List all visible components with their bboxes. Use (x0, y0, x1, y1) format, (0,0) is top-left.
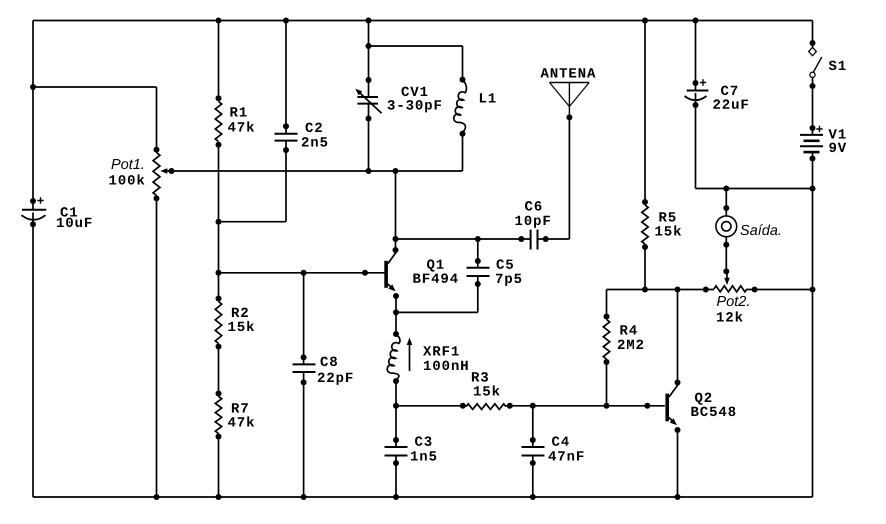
inductor L1 (454, 77, 467, 137)
node top rail at R1 (216, 18, 222, 24)
node Q1 collector branch (393, 236, 399, 242)
node R1/C2 junction (216, 219, 222, 225)
node C5 branch (475, 236, 481, 242)
capacitor C7 (electrolytic 22uF) (685, 79, 709, 108)
wire left rail upper (to C1) (32, 21, 34, 210)
wire right rail lower (812, 189, 814, 498)
value 3-30pF (388, 100, 442, 112)
wire top supply rail (33, 20, 813, 22)
value 9V (829, 143, 846, 153)
value 15k (474, 385, 500, 395)
node base bus at R1/R2 (216, 270, 222, 276)
wire R2 to R7 (218, 347, 220, 394)
label S1 (829, 61, 846, 71)
output jack Saida (716, 205, 737, 248)
label V1 (829, 129, 846, 138)
wire emitter node to R3 (396, 405, 466, 407)
node tank branch (366, 43, 372, 49)
node ground rail at R7 (216, 494, 222, 500)
resistor R5 (642, 199, 648, 250)
resistor R3 (460, 403, 513, 410)
node wiper bus at CV1 (366, 168, 372, 174)
wire top rail to R1 (218, 21, 220, 99)
node collector net at right rail (810, 287, 816, 293)
value 15k (228, 321, 254, 331)
wire C4 to ground rail (532, 456, 534, 498)
label C2 (306, 123, 322, 133)
label C6 (525, 201, 541, 211)
label R2 (232, 308, 248, 317)
transistor Q1 (BF494) (384, 247, 399, 299)
switch S1 (809, 40, 822, 89)
capacitor C6 (518, 230, 548, 250)
capacitor C1 (electrolytic 10uF) (22, 197, 47, 227)
wire down to Pot1 top (156, 87, 158, 150)
node R5 / collector net (642, 287, 648, 293)
node Q1 base terminal (362, 270, 368, 276)
wire C7 to output rail (695, 105, 697, 189)
value 15k (655, 225, 681, 235)
wire C2 to R1 node (219, 221, 287, 223)
wire output node to jack (725, 189, 727, 217)
node emitter network junction (393, 403, 399, 409)
wire C6 to antenna (horizontal) (538, 238, 570, 240)
wire Q1 base bus (219, 272, 386, 274)
value 12k (717, 311, 743, 321)
node Q2 base terminal (644, 403, 650, 409)
node output rail at battery (810, 186, 816, 192)
wire top rail to C2 (285, 21, 287, 134)
wire Q1 collector lead (395, 171, 397, 252)
label ANTENA (541, 68, 596, 77)
node ground rail at Pot1 (154, 494, 160, 500)
label C5 (497, 259, 514, 269)
wire L1 bottom lead (462, 134, 464, 171)
wire base node to C8 (303, 273, 305, 365)
wire Q2 collector net (left) (607, 289, 715, 291)
wire left rail to Pot1 (horizontal) (33, 86, 157, 88)
label C8 (321, 357, 338, 367)
node top rail at R5 (642, 18, 648, 24)
wire R4 top lead (606, 290, 608, 317)
value 10pF (515, 216, 550, 228)
value BF494 (413, 273, 457, 283)
wire XRF1 to C3 node (395, 381, 397, 447)
label C4 (552, 436, 569, 446)
wire C4 top lead (532, 406, 534, 447)
wire C5 to emitter node (396, 311, 478, 313)
node ground rail at C4 (530, 494, 536, 500)
value 47nF (549, 451, 584, 460)
label Pot2. (717, 296, 749, 306)
wire R5 bottom lead (644, 247, 646, 290)
label Q1 (427, 259, 444, 271)
wire C5 bottom lead (477, 276, 479, 312)
wire antenna lead (vertical) (568, 117, 570, 239)
wire CV1 bottom lead (368, 104, 370, 171)
label Saida. (740, 224, 780, 235)
wire Q2 emitter to ground rail (677, 430, 679, 497)
wire Q1 emitter to XRF1 (395, 296, 397, 334)
resistor R2 (215, 296, 221, 350)
wire R3 to Q2 base (506, 405, 665, 407)
battery V1 (800, 125, 823, 162)
capacitor C3 (385, 437, 408, 466)
label R4 (620, 325, 636, 334)
wire top rail to C7 (695, 21, 697, 91)
value 7p5 (496, 274, 521, 286)
value 2M2 (618, 340, 643, 349)
wire R7 to ground rail (218, 437, 220, 498)
value 100k (109, 174, 144, 184)
potentiometer Pot2 (703, 268, 758, 292)
value 22pF (318, 373, 353, 385)
node top rail at CV1 (366, 18, 372, 24)
wire output rail (C7 to battery) (696, 188, 813, 190)
wire top rail to CV1 (368, 21, 370, 98)
node ground rail at C3 (393, 494, 399, 500)
value 22uF (713, 99, 748, 109)
antenna ANTENA (550, 83, 590, 121)
value BC548 (691, 407, 735, 417)
value 100nH (424, 361, 468, 371)
wire top rail to R5 (644, 21, 646, 203)
wire C2 bottom lead (285, 141, 287, 222)
resistor R4 (603, 314, 609, 366)
wire R4 bottom lead (606, 362, 608, 406)
label R3 (472, 372, 488, 382)
label Pot1. (111, 159, 143, 169)
resistor R1 (215, 95, 221, 148)
label C1 (61, 207, 78, 217)
node top rail at C2 (283, 18, 289, 24)
value 2n5 (302, 137, 328, 147)
label Q2 (695, 393, 711, 405)
label CV1 (402, 87, 428, 97)
label C7 (721, 86, 737, 96)
wire Pot1 wiper bus (172, 170, 463, 172)
capacitor C2 (275, 123, 298, 153)
node base bus at C8 (301, 270, 307, 276)
label XRF1 (423, 346, 459, 355)
wire down to L1 top (462, 46, 464, 80)
wire C5 top lead (477, 239, 479, 268)
node Q2 collector branch (675, 287, 681, 293)
wire collector node to C6 (396, 238, 531, 240)
wire bottom ground rail (33, 496, 813, 498)
potentiometer Pot1 (153, 147, 174, 202)
wire C3 to ground rail (395, 456, 397, 498)
capacitor C5 (467, 258, 490, 287)
wire Q2 collector lead (677, 290, 679, 385)
value 10uF (57, 218, 92, 228)
wire V1 to output node (812, 159, 814, 189)
wire left rail lower (C1 to ground rail) (32, 224, 34, 498)
node top rail at C7 (693, 18, 699, 24)
capacitor C4 (522, 437, 545, 466)
label L1 (480, 93, 496, 102)
label C3 (415, 436, 432, 446)
node left rail wiper branch (30, 84, 36, 90)
node R4/base junction (604, 403, 610, 409)
variable capacitor CV1 (355, 77, 381, 122)
node ground rail at C8 (301, 494, 307, 500)
inductor XRF1 (RF choke) (387, 331, 412, 384)
wire Pot2 to right rail (747, 289, 813, 291)
wire jack to Pot2 wiper (725, 237, 727, 272)
label R1 (230, 107, 246, 116)
node ground rail at Q2 emitter (675, 494, 681, 500)
node output rail at jack (723, 186, 729, 192)
transistor Q2 (BC548) (665, 380, 680, 434)
capacitor C8 (293, 354, 316, 385)
wire Pot1 bottom to ground rail (156, 198, 158, 497)
wire R1 to base node (218, 145, 220, 273)
label R7 (232, 403, 248, 412)
value 1n5 (411, 451, 436, 460)
node Q1 emitter / C5 return (393, 309, 399, 315)
wire S1 to V1 (812, 86, 814, 128)
value 47k (228, 416, 254, 426)
wire tank branch to L1 (horizontal) (369, 45, 463, 47)
wire right rail top (to S1) (812, 21, 814, 44)
resistor R7 (215, 391, 221, 440)
wire R2 top lead (218, 273, 220, 299)
label R5 (659, 212, 675, 221)
node wiper bus at Q1 collector (393, 168, 399, 174)
wire C8 to ground rail (303, 372, 305, 497)
node C4 branch (530, 403, 536, 409)
value 47k (228, 121, 254, 131)
